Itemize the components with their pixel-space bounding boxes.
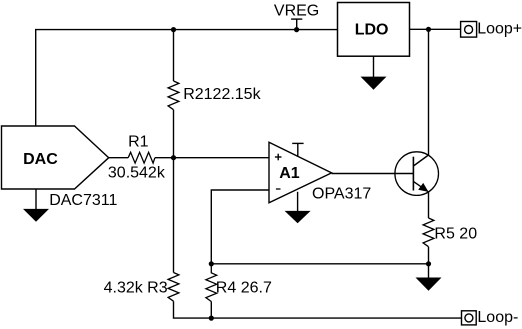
svg-text:DAC7311: DAC7311 [49, 192, 117, 209]
ground below DAC [23, 189, 49, 222]
svg-text:VREG: VREG [274, 3, 319, 20]
svg-text:Loop-: Loop- [477, 309, 518, 326]
ground below R5 node [416, 264, 442, 291]
wire R2 branch junction dot on top rail [171, 27, 176, 32]
node VREG junction dot [294, 27, 299, 32]
emitter arrow [418, 183, 428, 192]
svg-text:R4 26.7: R4 26.7 [216, 280, 272, 297]
node collector junction dot on LDO output [426, 27, 431, 32]
node feedback junction dot [209, 261, 214, 266]
node R5 ground junction dot [426, 261, 431, 266]
resistor R5 [423, 218, 434, 247]
wire minus input feedback [211, 190, 269, 264]
wire collector up to LDO output node [428, 29, 430, 155]
svg-text:OPA317: OPA317 [312, 185, 371, 202]
wire from R2 bottom to main node [173, 110, 175, 158]
resistor R2 [168, 81, 179, 110]
svg-text:4.32k R3: 4.32k R3 [104, 280, 168, 297]
svg-text:30.542k: 30.542k [108, 164, 166, 181]
svg-text:R1: R1 [128, 133, 149, 150]
svg-text:R5 20: R5 20 [434, 225, 477, 242]
svg-text:Loop+: Loop+ [477, 21, 522, 38]
resistor R3 [168, 273, 179, 302]
svg-text:DAC: DAC [23, 151, 58, 168]
wire top rail from top-left corner to LDO input [36, 30, 338, 126]
wire R3 bottom to bottom rail [174, 301, 462, 318]
wire op-amp output to transistor base [332, 173, 414, 175]
pin minus symbol [276, 188, 281, 190]
power tap on op-amp [292, 143, 303, 156]
dac U1 DAC7311 block [2, 126, 109, 189]
wire feedback rail to R5 node [211, 263, 428, 265]
resistor R4 [206, 264, 217, 302]
terminal Loop+ [461, 22, 477, 38]
regulator U2 LDO box [338, 3, 410, 57]
wire from top rail down to R2 top [173, 30, 175, 81]
transistor Q1 [395, 152, 439, 196]
wire emitter down to R5 [428, 192, 430, 218]
wire R4 bottom to bottom rail [210, 302, 212, 318]
ground below op-amp [285, 192, 311, 224]
resistor R1 [128, 152, 155, 163]
wire main node down to R3 [173, 158, 175, 273]
svg-text:R2122.15k: R2122.15k [183, 86, 261, 103]
wire main node to op-amp plus input [155, 157, 269, 159]
wire R5 bottom to feedback rail [428, 247, 430, 264]
wire DAC output to R1 [109, 157, 129, 159]
node R4 bottom junction dot [209, 316, 214, 321]
op-amp A1 triangle [269, 142, 332, 203]
pin plus symbol [275, 154, 282, 161]
node A main junction dot (R1/R2/R3/op-amp +) [171, 155, 176, 160]
svg-text:LDO: LDO [355, 22, 389, 39]
svg-text:A1: A1 [279, 165, 300, 182]
ground below LDO [361, 56, 387, 90]
terminal Loop- [462, 311, 477, 325]
power tap VREG symbol [291, 19, 302, 30]
wire LDO output to Loop+ terminal [410, 28, 461, 30]
